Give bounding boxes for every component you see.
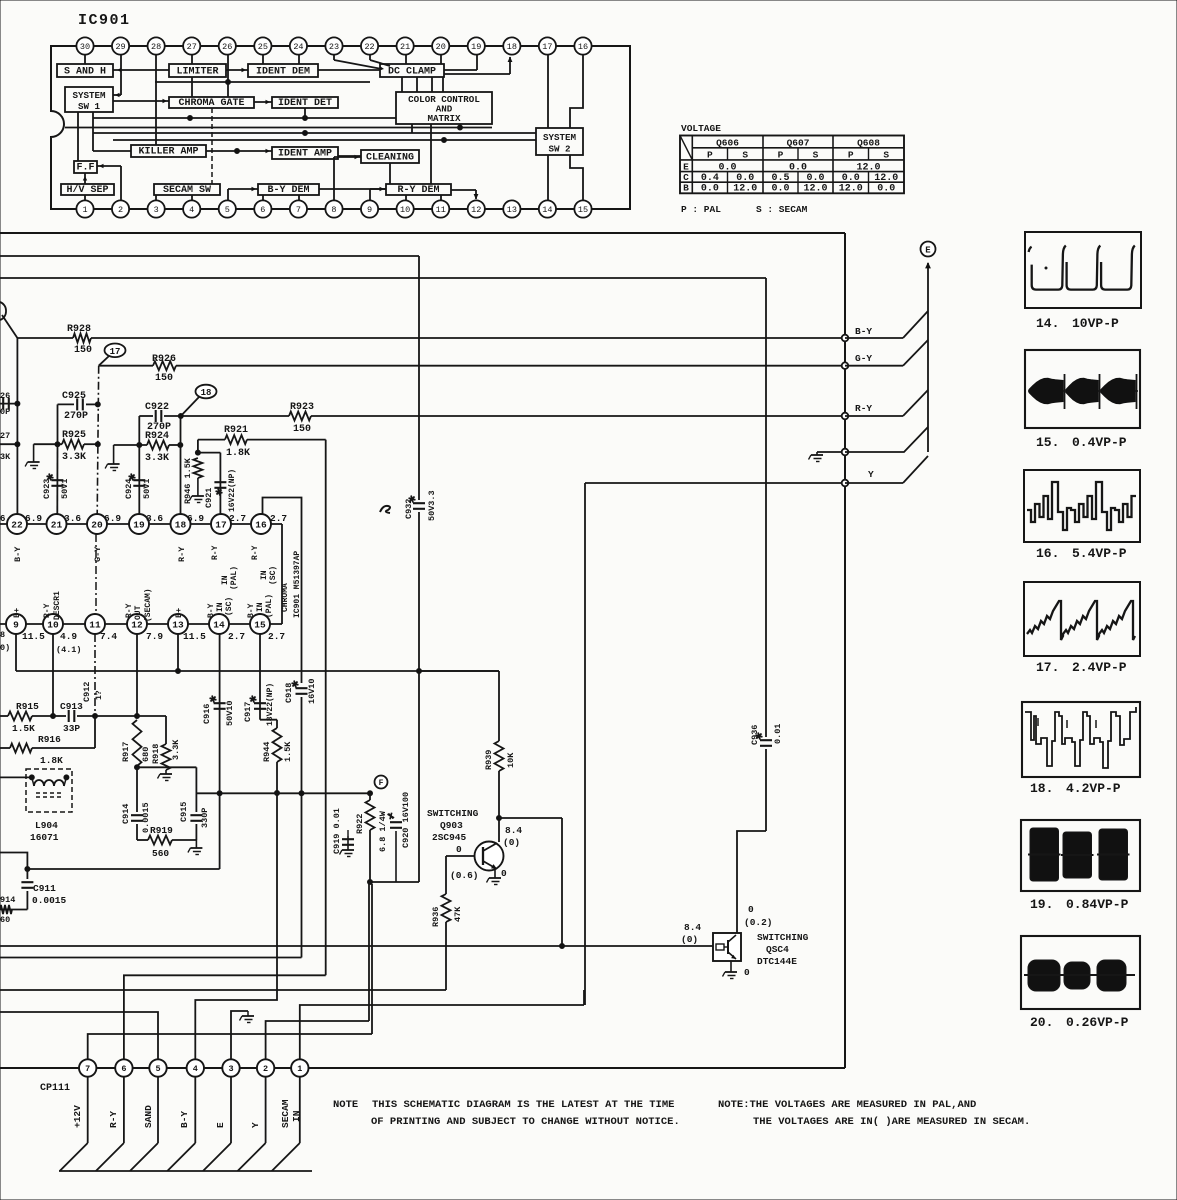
svg-text:20.: 20. xyxy=(1030,1015,1053,1030)
svg-text:3.3K: 3.3K xyxy=(62,452,86,463)
svg-text:1.8K: 1.8K xyxy=(226,448,250,459)
capacitor C913 33P xyxy=(53,701,95,734)
ground C919 xyxy=(340,850,355,857)
wire pin19 to DC CLAMP xyxy=(444,55,477,70)
node R924 junction pin19 xyxy=(137,443,142,448)
svg-text:B-Y: B-Y xyxy=(207,603,216,618)
svg-text:6: 6 xyxy=(260,205,265,215)
svg-text:50V1: 50V1 xyxy=(60,479,70,499)
wire pin24 to IDENT DEM xyxy=(298,55,300,64)
wire pin16 to SYSTEM SW2 xyxy=(570,55,583,128)
wire x419 bottom corner xyxy=(370,881,419,883)
svg-text:7.4: 7.4 xyxy=(100,631,117,642)
svg-text:1.5K: 1.5K xyxy=(283,741,293,762)
wire CHROMA GATE to SECAM SW dashed xyxy=(211,108,213,184)
voltage table row labels xyxy=(683,161,689,193)
svg-text:SW 1: SW 1 xyxy=(78,101,101,112)
node y793 junctions xyxy=(217,791,372,796)
wire S AND H to LIMITER rail xyxy=(113,68,169,72)
svg-text:R-Y: R-Y xyxy=(211,545,220,560)
svg-text:6: 6 xyxy=(121,1064,126,1074)
wire pin6 to B-Y DEM xyxy=(262,195,264,200)
svg-text:C914: C914 xyxy=(121,804,131,824)
wire pin4 to SECAM SW xyxy=(191,195,193,200)
svg-text:R-Y: R-Y xyxy=(251,545,260,560)
wire connector rail xyxy=(0,1067,845,1069)
pin voltage labels bottom row xyxy=(0,630,285,655)
svg-text:25: 25 xyxy=(258,42,268,52)
node Y bus junction xyxy=(842,480,849,487)
wire pin15 drop C917 column xyxy=(260,634,277,720)
waveform 14 box xyxy=(1025,232,1141,308)
svg-text:R928: R928 xyxy=(67,324,91,335)
ground Q903 xyxy=(487,878,502,885)
svg-text:150: 150 xyxy=(74,345,92,356)
wire pin9 to R-Y DEM xyxy=(370,187,386,201)
svg-text:THE VOLTAGES ARE IN( )ARE MEAS: THE VOLTAGES ARE IN( )ARE MEASURED IN SE… xyxy=(753,1116,1030,1128)
svg-text:0.0: 0.0 xyxy=(842,173,860,184)
svg-text:10: 10 xyxy=(47,619,59,630)
svg-text:6.9: 6.9 xyxy=(187,513,204,524)
capacitor C912 xyxy=(82,682,137,716)
svg-text:R-Y DEM: R-Y DEM xyxy=(397,185,439,196)
svg-text:R915: R915 xyxy=(16,701,39,712)
svg-text:KILLER AMP: KILLER AMP xyxy=(138,147,198,158)
node R944 bottom xyxy=(275,791,280,796)
waveform 18 box xyxy=(1022,702,1140,777)
wire R919 right ground xyxy=(195,840,197,848)
wire chip top edge xyxy=(0,523,282,525)
wire bus y1034 pin7 xyxy=(88,1034,372,1062)
svg-text:C925: C925 xyxy=(62,391,86,402)
svg-text:30: 30 xyxy=(80,42,90,52)
svg-text:P: P xyxy=(707,149,713,160)
resistor R924 3.3K xyxy=(114,431,181,464)
wire IDENT DET drop xyxy=(304,108,306,118)
svg-text:B: B xyxy=(683,183,689,194)
svg-text:2.4VP-P: 2.4VP-P xyxy=(1072,660,1127,675)
svg-text:150: 150 xyxy=(293,424,311,435)
capacitor C924 50V1 xyxy=(124,474,152,499)
wire x419 to R939 xyxy=(419,671,499,741)
oval callout 17 xyxy=(99,344,126,366)
wire Y diagonal to E xyxy=(845,456,928,483)
functional block DC CLAMP xyxy=(380,64,444,77)
capacitor C918 16V10 xyxy=(284,678,317,704)
wire chip bottom edge xyxy=(0,623,282,625)
functional block LIMITER xyxy=(169,64,226,77)
svg-text:IDENT AMP: IDENT AMP xyxy=(278,149,332,160)
svg-text:6: 6 xyxy=(0,514,5,524)
wire x372 to pin7 bus xyxy=(371,884,373,1034)
wire rail E xyxy=(155,80,370,85)
wire rail D xyxy=(113,138,536,143)
svg-text:R-Y: R-Y xyxy=(43,603,52,618)
svg-text:680: 680 xyxy=(141,747,151,762)
ground R946 xyxy=(189,496,204,503)
wire SYSTEM SW1 to F.F xyxy=(77,112,79,161)
ground R925 xyxy=(25,444,39,468)
node stub junction xyxy=(842,449,849,456)
wire rail B xyxy=(65,125,492,130)
voltage table values xyxy=(701,162,898,194)
wire pin19 column xyxy=(138,416,140,514)
svg-text:23: 23 xyxy=(329,42,339,52)
svg-text:F: F xyxy=(379,779,384,788)
svg-text:IC901 M51397AP: IC901 M51397AP xyxy=(293,551,302,618)
svg-text:50V3.3: 50V3.3 xyxy=(427,490,437,521)
svg-text:0.84VP-P: 0.84VP-P xyxy=(1066,897,1129,912)
wire x584 link xyxy=(583,990,585,1005)
node R924 right junction xyxy=(178,443,183,448)
wire chip right edge xyxy=(281,524,283,624)
svg-text:330P: 330P xyxy=(200,808,210,828)
svg-text:P : PAL: P : PAL xyxy=(681,204,721,215)
wire C936 column xyxy=(737,278,766,933)
ground R919 xyxy=(188,848,203,855)
waveform 18 label xyxy=(1030,781,1121,796)
svg-text:17: 17 xyxy=(215,519,227,530)
wire bus y1000 pin4 xyxy=(195,793,277,1062)
waveform 20 box xyxy=(1021,936,1140,1009)
svg-text:7.9: 7.9 xyxy=(146,631,163,642)
functional block H/V SEP xyxy=(61,184,114,196)
resistor R946 1.5K xyxy=(183,457,202,504)
label CP111 xyxy=(40,1083,70,1094)
svg-text:5: 5 xyxy=(225,205,230,215)
svg-text:B+: B+ xyxy=(12,608,22,618)
svg-text:E: E xyxy=(683,161,689,172)
svg-text:16: 16 xyxy=(255,519,267,530)
node R915 C913 xyxy=(51,714,56,719)
svg-text:B-Y: B-Y xyxy=(247,603,256,618)
waveform 19 box xyxy=(1021,820,1140,891)
voltage table headers xyxy=(707,137,889,160)
wire pin10 drop xyxy=(52,634,54,716)
svg-text:C918: C918 xyxy=(284,683,294,703)
wire C918 column lower xyxy=(301,697,303,958)
wire pin5 to B-Y DEM xyxy=(228,187,258,201)
wire pin13 stub xyxy=(0,0,1,1)
wire x585 column xyxy=(584,483,586,1005)
node R917 bottom xyxy=(135,765,140,770)
capacitor C922 270P xyxy=(139,402,181,433)
svg-text:20: 20 xyxy=(436,42,446,52)
wire y869 bus xyxy=(27,868,219,870)
svg-text:C932: C932 xyxy=(404,499,414,519)
svg-text:0.0: 0.0 xyxy=(718,162,736,173)
svg-text:10VP-P: 10VP-P xyxy=(1072,316,1119,331)
svg-text:15: 15 xyxy=(578,205,588,215)
label Q903 emitter voltage xyxy=(501,868,507,879)
waveform 17 box xyxy=(1024,582,1140,656)
svg-text:10: 10 xyxy=(400,205,410,215)
svg-text:12: 12 xyxy=(471,205,481,215)
wire x325 column xyxy=(325,440,327,976)
svg-text:(PAL): (PAL) xyxy=(265,594,274,618)
wire pin25 to IDENT DEM xyxy=(262,55,264,64)
svg-text:R939: R939 xyxy=(484,750,494,770)
svg-text:4: 4 xyxy=(193,1064,198,1074)
svg-text:P: P xyxy=(848,149,854,160)
wire collector branch xyxy=(499,818,565,949)
svg-text:S: S xyxy=(883,149,889,160)
IC901 top pins 30-16 xyxy=(76,37,591,54)
label Q904 base voltage xyxy=(681,922,701,945)
waveform 16 box xyxy=(1024,470,1140,542)
wire rail C xyxy=(93,131,536,136)
svg-text:IN: IN xyxy=(256,602,265,612)
svg-text:C936: C936 xyxy=(750,725,760,745)
svg-text:C: C xyxy=(683,172,689,183)
wire bus y1012 pin5 xyxy=(0,1012,158,1062)
wire pin30 to S AND H xyxy=(84,55,86,64)
wire Q903 base column xyxy=(445,856,447,894)
svg-text:NOTE:THE VOLTAGES ARE MEASURED: NOTE:THE VOLTAGES ARE MEASURED IN PAL,AN… xyxy=(718,1099,976,1111)
wire R939 to collector xyxy=(497,771,502,842)
node E terminal xyxy=(921,242,936,257)
svg-text:C913: C913 xyxy=(60,701,83,712)
wire bus y957 xyxy=(0,957,302,959)
svg-text:IC901: IC901 xyxy=(78,12,131,29)
wire ground stub bus xyxy=(817,451,845,453)
svg-text:0): 0) xyxy=(0,643,10,653)
svg-text:47K: 47K xyxy=(453,906,463,922)
resistor R925 3.3K xyxy=(34,430,98,463)
functional block CLEANING xyxy=(361,150,419,163)
capacitor C914 0.0015 xyxy=(121,767,151,840)
svg-text:THIS SCHEMATIC DIAGRAM IS THE: THIS SCHEMATIC DIAGRAM IS THE LATEST AT … xyxy=(372,1099,674,1111)
svg-text:B-Y: B-Y xyxy=(13,546,23,562)
svg-text:2.7: 2.7 xyxy=(268,631,285,642)
svg-text:0: 0 xyxy=(748,904,754,915)
svg-text:L904: L904 xyxy=(35,820,58,831)
label Q903 collector voltage xyxy=(503,825,522,848)
svg-text:C924: C924 xyxy=(124,479,134,499)
svg-text:R-Y: R-Y xyxy=(108,1111,119,1128)
wire stub diagonal to E xyxy=(845,427,928,452)
svg-text:R-Y: R-Y xyxy=(177,546,187,562)
label Q904 collector voltage xyxy=(744,904,773,928)
svg-text:P: P xyxy=(778,149,784,160)
svg-text:VOLTAGE: VOLTAGE xyxy=(681,123,721,134)
label Q903 xyxy=(427,808,479,843)
svg-text:0.0: 0.0 xyxy=(736,173,754,184)
svg-text:CHROMA GATE: CHROMA GATE xyxy=(178,98,244,109)
wire IDENT DEM to DC CLAMP xyxy=(318,69,380,71)
svg-text:(0.6): (0.6) xyxy=(450,870,479,881)
svg-text:R917: R917 xyxy=(121,742,131,762)
svg-text:16071: 16071 xyxy=(30,832,59,843)
node C925 dash junction xyxy=(95,402,100,407)
left-edge pin circle xyxy=(0,302,6,320)
IC901 chip top pin row xyxy=(7,514,271,534)
resistor R928 150 on B-Y bus xyxy=(2,315,845,356)
wire pin22 column xyxy=(16,338,18,514)
svg-text:S AND H: S AND H xyxy=(64,66,106,77)
wire Q903 emitter xyxy=(494,869,496,878)
svg-text:0.0: 0.0 xyxy=(806,173,824,184)
svg-text:27: 27 xyxy=(187,42,197,52)
svg-text:0: 0 xyxy=(501,868,507,879)
svg-text:5.4VP-P: 5.4VP-P xyxy=(1072,546,1127,561)
label Y bus xyxy=(868,469,874,480)
svg-text:11: 11 xyxy=(89,619,101,630)
wire LIMITER to IDENT DEM xyxy=(226,68,248,72)
resistor R918 3.3K xyxy=(151,739,181,774)
svg-text:12.0: 12.0 xyxy=(856,162,880,173)
svg-text:SECAM: SECAM xyxy=(280,1099,291,1128)
svg-text:0.0: 0.0 xyxy=(789,162,807,173)
wire pin28 to KILLER AMP xyxy=(155,55,157,145)
wire bus y256 xyxy=(0,255,419,257)
IC901 bottom pins 1-15 xyxy=(76,200,591,217)
wire pin26 to CHROMA GATE xyxy=(227,55,229,97)
svg-text:17.: 17. xyxy=(1036,660,1059,675)
label Q903 base voltage xyxy=(450,844,479,881)
capacitor C926 partial at left edge xyxy=(0,391,20,417)
functional block COLOR CONTROL AND MATRIX xyxy=(396,92,492,124)
svg-text:11: 11 xyxy=(436,205,446,215)
svg-text:(SECAM): (SECAM) xyxy=(144,588,153,622)
wire pin11 dash-dot drop xyxy=(94,634,96,716)
resistor R944 1.5K xyxy=(262,720,293,793)
svg-text:0.0: 0.0 xyxy=(877,184,895,195)
svg-text:6.8 1/4W: 6.8 1/4W xyxy=(378,810,388,852)
svg-text:18: 18 xyxy=(507,42,517,52)
svg-text:G-Y: G-Y xyxy=(855,353,872,364)
waveform 20 label xyxy=(1030,1015,1129,1030)
wire pin21 to DC CLAMP xyxy=(405,55,407,64)
svg-text:6.9: 6.9 xyxy=(25,513,42,524)
svg-text:Q607: Q607 xyxy=(787,137,810,148)
svg-text:R925: R925 xyxy=(62,430,86,441)
svg-text:24: 24 xyxy=(293,42,303,52)
svg-text:(0): (0) xyxy=(681,934,698,945)
svg-text:9: 9 xyxy=(367,205,372,215)
svg-text:1: 1 xyxy=(82,205,87,215)
wire vertical x419 xyxy=(418,256,420,882)
wire R-Y diagonal to E xyxy=(845,390,928,416)
wire connector fan-out xyxy=(60,1077,300,1171)
svg-text:SAND: SAND xyxy=(143,1105,154,1128)
ground Q904 xyxy=(723,972,738,979)
svg-text:21: 21 xyxy=(400,42,410,52)
svg-text:C916: C916 xyxy=(202,704,212,724)
terminal F circle xyxy=(375,776,388,789)
voltage table title xyxy=(681,123,721,134)
wire B-Y diagonal to E xyxy=(845,311,928,338)
node x419 y671 junction xyxy=(417,669,422,674)
svg-text:CLEANING: CLEANING xyxy=(366,152,414,163)
svg-text:22: 22 xyxy=(11,519,23,530)
functional block IDENT DEM xyxy=(248,64,318,77)
svg-text:SW 2: SW 2 xyxy=(548,144,570,155)
svg-text:SWITCHING: SWITCHING xyxy=(427,808,479,819)
wire bus y975 pin6 xyxy=(124,975,326,1062)
pencil smudge xyxy=(380,506,390,513)
svg-text:(SC): (SC) xyxy=(225,597,234,616)
svg-text:8.4: 8.4 xyxy=(684,922,701,933)
capacitor C917 18V22 xyxy=(243,683,275,726)
svg-text:16.: 16. xyxy=(1036,546,1059,561)
wire COLOR CONTROL to R-Y DEM xyxy=(412,124,431,184)
svg-text:0.4: 0.4 xyxy=(701,173,719,184)
svg-text:R919: R919 xyxy=(150,825,173,836)
svg-text:IDENT DET: IDENT DET xyxy=(278,98,332,109)
svg-text:IN: IN xyxy=(221,575,230,585)
svg-text:(4.1): (4.1) xyxy=(56,645,82,655)
svg-text:3.3K: 3.3K xyxy=(171,739,181,760)
svg-text:12.0: 12.0 xyxy=(839,184,863,195)
capacitor C921 16V22 xyxy=(204,453,237,514)
svg-text:4.9: 4.9 xyxy=(60,631,77,642)
svg-text:E: E xyxy=(215,1122,226,1128)
wire Q904 base xyxy=(585,945,713,947)
svg-text:22: 22 xyxy=(364,42,374,52)
wire pin8 to CLEANING xyxy=(334,155,361,201)
svg-text:29: 29 xyxy=(115,42,125,52)
svg-text:4.2VP-P: 4.2VP-P xyxy=(1066,781,1121,796)
svg-text:CP111: CP111 xyxy=(40,1083,70,1094)
node G-Y bus junction xyxy=(842,362,849,369)
svg-text:(PAL): (PAL) xyxy=(230,566,239,590)
wire bus y278 xyxy=(0,277,766,279)
label Q904 xyxy=(757,932,809,967)
resistor R936 47K xyxy=(431,894,463,990)
svg-text:21: 21 xyxy=(51,519,63,530)
svg-text:8: 8 xyxy=(0,630,5,640)
wire SYSTEM SW2 to pin15 xyxy=(570,155,583,200)
svg-text:Y: Y xyxy=(250,1122,261,1128)
svg-text:13: 13 xyxy=(507,205,517,215)
svg-text:150: 150 xyxy=(155,373,173,384)
svg-text:1.5K: 1.5K xyxy=(12,723,35,734)
functional block R-Y DEM xyxy=(386,184,451,196)
wire pin11 to R-Y DEM xyxy=(440,195,442,200)
waveform 15 label xyxy=(1036,435,1127,450)
wire pin9 drop xyxy=(15,634,17,671)
wire B-Y DEM to R-Y DEM xyxy=(319,188,386,190)
wire pin21 column xyxy=(56,444,58,514)
svg-text:14: 14 xyxy=(542,205,552,215)
resistor R914 partial xyxy=(0,895,15,925)
svg-text:S: S xyxy=(742,149,748,160)
capacitor C919 0.01 xyxy=(332,808,354,854)
wire pin1 to H/V SEP xyxy=(84,195,86,200)
wire pin20 to DC CLAMP xyxy=(440,55,442,64)
svg-text:F.F: F.F xyxy=(76,163,94,174)
svg-text:0.0015: 0.0015 xyxy=(32,895,67,906)
wire pin17 to SYSTEM SW2 xyxy=(547,55,549,128)
svg-text:560: 560 xyxy=(152,848,169,859)
wire Y bus xyxy=(585,482,845,484)
svg-text:MATRIX: MATRIX xyxy=(427,113,461,124)
svg-text:12.0: 12.0 xyxy=(803,184,827,195)
svg-text:60: 60 xyxy=(0,915,10,925)
svg-text:2SC945: 2SC945 xyxy=(432,832,467,843)
pin voltage labels top row xyxy=(0,513,287,524)
ground R918 xyxy=(158,774,173,781)
svg-text:0.0: 0.0 xyxy=(701,184,719,195)
svg-text:0.26VP-P: 0.26VP-P xyxy=(1066,1015,1129,1030)
svg-text:2.7: 2.7 xyxy=(228,631,245,642)
label G-Y bus xyxy=(855,353,872,364)
functional block SYSTEM SW 2 xyxy=(536,128,583,155)
svg-text:C919 0.01: C919 0.01 xyxy=(332,808,342,854)
wire C925 left drop xyxy=(57,404,59,444)
capacitor C916 50V10 xyxy=(202,696,235,726)
